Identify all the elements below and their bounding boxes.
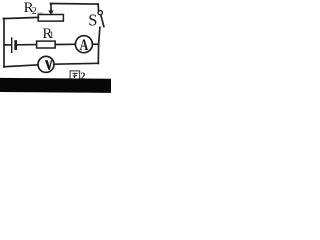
- wire voltmeter to bottom-right: [54, 62, 98, 65]
- wire battery left lead: [4, 44, 11, 46]
- svg-text:1: 1: [49, 30, 54, 40]
- stray scan mark: [37, 12, 43, 13]
- wire right rail lower: [97, 44, 99, 63]
- label R2: [24, 0, 37, 17]
- label R1: [43, 26, 54, 42]
- label 图2 caption: [70, 71, 85, 83]
- wire bottom-left to voltmeter: [4, 65, 38, 67]
- svg-text:S: S: [88, 11, 97, 30]
- wire ammeter to right rail: [92, 43, 98, 45]
- resistor R2 rheostat body: [38, 15, 63, 22]
- switch S blade: [101, 15, 104, 26]
- svg-text:A: A: [80, 37, 89, 54]
- wire top rail to switch corner: [50, 3, 98, 6]
- resistor R1 body: [37, 41, 56, 48]
- wire left rail: [3, 18, 5, 67]
- wire right rail upper: [99, 27, 100, 44]
- rheostat slider arrow: [48, 4, 53, 15]
- ammeter A: [75, 36, 92, 54]
- svg-text:2: 2: [32, 6, 37, 17]
- voltmeter V: [38, 56, 54, 72]
- switch S terminal circle: [98, 11, 102, 15]
- wire top-left to rheostat: [3, 17, 38, 18]
- wire R1 to ammeter: [55, 43, 75, 45]
- battery: [12, 38, 16, 52]
- black censor bar: [0, 78, 111, 93]
- wire switch upper lead: [97, 4, 99, 10]
- wire battery to R1: [17, 44, 37, 46]
